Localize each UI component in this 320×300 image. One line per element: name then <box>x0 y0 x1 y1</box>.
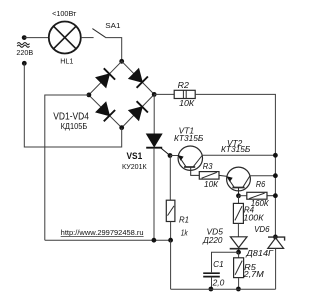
node B: AC bottom terminal <box>22 61 27 66</box>
node: R6 on rail <box>273 193 278 198</box>
svg-text:220В: 220В <box>16 48 33 57</box>
resistor R2 <box>174 90 195 98</box>
wire: AC bottom to bridge bottom <box>24 63 121 147</box>
wire: R1 to middle rail <box>170 222 172 241</box>
resistor R3 <box>199 172 227 180</box>
wire: AC top to lamp <box>24 37 49 39</box>
wire: VT2 collector to right rail <box>250 175 276 177</box>
wire: VS1 cathode down <box>153 148 155 241</box>
node: R5 on bottom rail <box>236 287 241 292</box>
svg-text:КТ315Б: КТ315Б <box>174 134 203 143</box>
svg-text:http://www.299792458.ru: http://www.299792458.ru <box>61 228 144 237</box>
wire: gate node down to R1 <box>169 156 171 201</box>
node: bridge bottom <box>119 125 124 130</box>
svg-text:КТ315Б: КТ315Б <box>221 145 250 154</box>
wire: node to C1 <box>212 252 239 272</box>
svg-text:<100Вт: <100Вт <box>52 9 77 18</box>
wire: base node to R6 <box>239 195 247 197</box>
node: bridge right <box>152 92 157 97</box>
wire: base node to R4 <box>238 196 240 204</box>
node: C1 on bottom rail <box>209 287 214 292</box>
AC mains symbol ~ <box>17 43 29 48</box>
wire: VD6 anode to bottom rail <box>275 248 277 289</box>
switch SA1 <box>92 29 105 38</box>
svg-text:C1: C1 <box>213 260 224 269</box>
wire: node to R5 <box>238 252 240 258</box>
wire: C1 to bottom rail <box>211 277 213 290</box>
wire: bridge left to left rail down <box>45 95 89 240</box>
wire: bridge diamond edges <box>89 61 155 127</box>
node: bridge top <box>119 59 124 64</box>
svg-text:R1: R1 <box>179 216 189 225</box>
node: VT1 collector on rail <box>273 153 278 158</box>
transistor VT1 <box>178 146 203 175</box>
wire: R5 to bottom rail <box>238 278 240 290</box>
wire: middle rail down to bottom rail <box>170 240 172 289</box>
svg-text:2,0: 2,0 <box>212 278 225 287</box>
svg-text:100К: 100К <box>243 214 265 223</box>
svg-text:VD1-VD4: VD1-VD4 <box>53 112 89 123</box>
wire: lamp to switch <box>81 37 94 39</box>
node: VD6 top <box>273 235 278 240</box>
resistor R6 <box>247 192 276 199</box>
resistor R5 <box>234 258 244 278</box>
wire: R2 to right rail <box>195 94 275 237</box>
node: VT2 base node <box>236 193 241 198</box>
lamp HL1 <box>49 22 81 54</box>
node: VT2 collector on rail <box>273 173 278 178</box>
svg-text:HL1: HL1 <box>60 57 73 66</box>
wire: middle rail <box>45 239 171 241</box>
wire: switch to bridge top <box>105 38 121 62</box>
node: R1 on middle rail <box>168 238 173 243</box>
svg-text:КД105Б: КД105Б <box>61 122 88 131</box>
svg-text:Д220: Д220 <box>202 236 223 245</box>
zener diode VD6 <box>268 237 285 248</box>
diode VD2 (top-right) <box>128 68 148 88</box>
wire: bridge right to R2 <box>154 93 174 95</box>
wire: bottom rail <box>171 288 276 290</box>
svg-text:2,7М: 2,7М <box>243 270 265 279</box>
diode VD3 (bottom-left) <box>95 102 115 122</box>
svg-text:VD5: VD5 <box>207 228 224 237</box>
resistor R4 <box>233 203 243 223</box>
resistor R1 <box>166 200 175 221</box>
wire: VS1 anode <box>153 94 155 134</box>
wire: gate node to VT1 emitter <box>170 155 178 157</box>
node: gate node <box>168 153 173 158</box>
capacitor C1 <box>203 273 220 276</box>
node: VD5 cathode node <box>236 250 241 255</box>
svg-text:1k: 1k <box>181 228 189 237</box>
svg-text:R3: R3 <box>203 162 213 171</box>
thyristor VS1 <box>146 134 170 156</box>
wire: VT1 collector to right rail <box>202 154 275 156</box>
svg-text:VD6: VD6 <box>254 225 270 234</box>
svg-text:SA1: SA1 <box>105 21 120 30</box>
svg-text:10К: 10К <box>179 99 195 108</box>
svg-text:R2: R2 <box>178 81 190 90</box>
node: VS1 cathode on middle rail <box>152 238 157 243</box>
svg-text:R6: R6 <box>256 180 266 189</box>
diode VD1 (top-left) <box>95 68 115 88</box>
diode VD5 <box>230 237 248 252</box>
node: bridge left <box>87 93 92 98</box>
svg-text:VS1: VS1 <box>127 151 143 161</box>
node A: AC top terminal <box>22 35 27 40</box>
svg-text:Д814Г: Д814Г <box>245 249 274 258</box>
wire: R4 to VD5 <box>237 223 239 236</box>
svg-text:10К: 10К <box>204 180 219 189</box>
svg-text:КУ201К: КУ201К <box>122 162 147 171</box>
diode VD4 (bottom-right) <box>128 101 148 121</box>
transistor VT2 <box>227 167 251 196</box>
